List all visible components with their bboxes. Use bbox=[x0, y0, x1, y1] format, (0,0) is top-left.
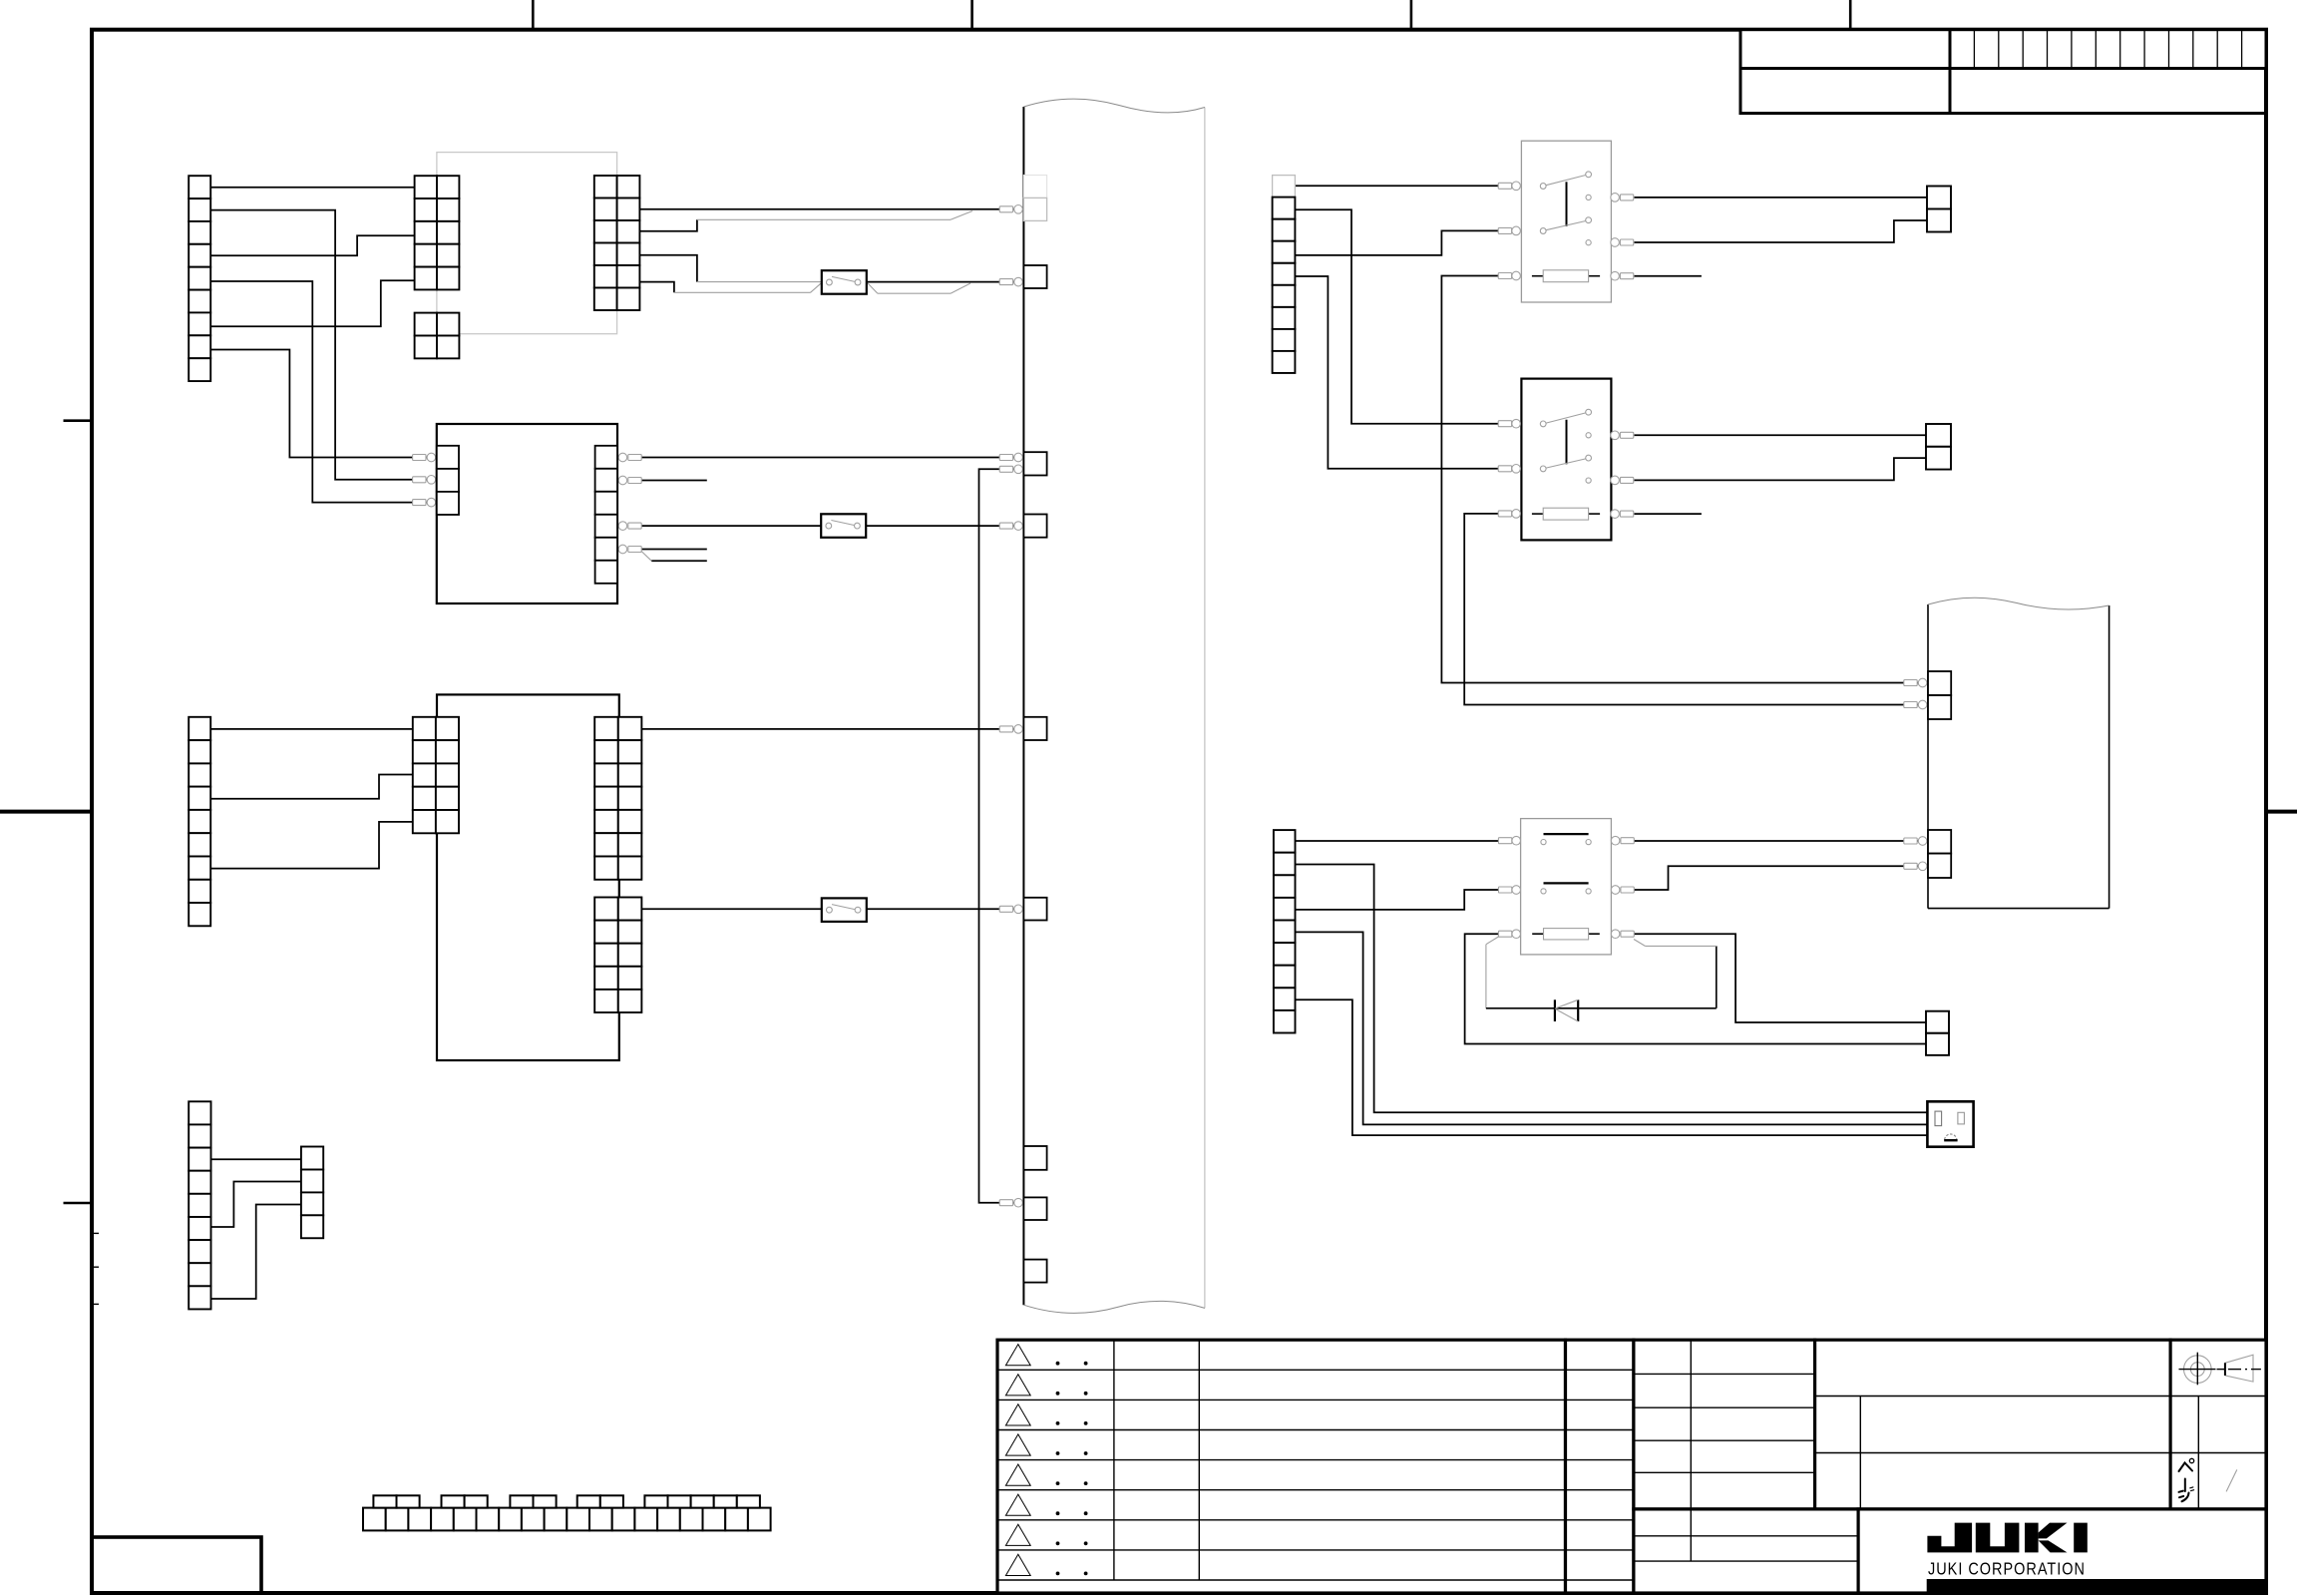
frame tick top 3 bbox=[1410, 0, 1413, 30]
frame inner marks left bbox=[92, 1232, 99, 1234]
switch S1 bbox=[822, 270, 867, 294]
bottom terminal strip upper tabs bbox=[373, 1495, 759, 1507]
connector CN-L bbox=[189, 1101, 210, 1309]
revision triangle row 8 bbox=[1005, 1554, 1030, 1575]
frame tick right center bbox=[2266, 810, 2297, 814]
wire R1 to relay2 pin1 bbox=[1295, 209, 1498, 424]
revision triangle row 1 bbox=[1005, 1345, 1030, 1366]
terminal at F pin2 bbox=[413, 476, 436, 485]
terminal at duct tab1 bbox=[999, 205, 1022, 214]
pair wire gray to tab1 bbox=[697, 218, 951, 220]
wire A2 to F pin2 bbox=[210, 210, 437, 480]
wire L9 to M3 bbox=[211, 1205, 301, 1300]
connector CN-M bbox=[301, 1147, 323, 1239]
revision dots row 2 bbox=[1056, 1392, 1088, 1396]
connector CN-C bbox=[594, 176, 640, 310]
revision dots row 8 bbox=[1056, 1572, 1088, 1576]
connector CN-B2 bbox=[415, 313, 460, 359]
terminal at F pin3 bbox=[413, 498, 436, 507]
wire F c2 stub bbox=[639, 480, 707, 482]
right unit tab2 bbox=[1928, 695, 1951, 719]
page slash bbox=[2226, 1469, 2237, 1491]
switch S2 bbox=[821, 514, 866, 538]
title sign area left bbox=[1634, 1509, 1858, 1593]
wire relay2 coil right stub bbox=[1635, 513, 1702, 515]
wire K1 to switch S3 bbox=[641, 908, 822, 910]
connector CN-B bbox=[415, 176, 460, 289]
terminal at duct tab3 b bbox=[999, 465, 1022, 474]
page label (vertical katakana) bbox=[2179, 1458, 2194, 1501]
connector CN-R bbox=[1273, 198, 1296, 373]
revision dots row 6 bbox=[1056, 1511, 1088, 1515]
revision triangle row 5 bbox=[1005, 1464, 1030, 1485]
wire L3 to M1 bbox=[211, 1158, 301, 1160]
revision dots row 5 bbox=[1056, 1481, 1088, 1485]
duct ghost tab bbox=[1023, 176, 1046, 199]
right unit tab1 bbox=[1928, 671, 1951, 695]
diode D1 bbox=[1555, 999, 1578, 1021]
wire H7 to I5 bbox=[210, 822, 413, 869]
wire N5 to outlet N bbox=[1296, 932, 1928, 1124]
terminal at F pin1 bbox=[413, 453, 436, 462]
unit box E (ghost) bbox=[437, 153, 617, 334]
frame tick left short 2 bbox=[64, 1202, 93, 1205]
F right tabs bbox=[595, 446, 617, 584]
cable duct left edge bbox=[1022, 107, 1024, 1305]
title right-middle section bbox=[1815, 1340, 2171, 1509]
terminal F out c1 bbox=[618, 453, 641, 462]
wire R3 to relay1 pin2 bbox=[1295, 230, 1498, 255]
relay RY3 bbox=[1498, 819, 1634, 955]
wire F c4 to switch S2 bbox=[639, 525, 822, 527]
wire A4 to B3 bbox=[210, 235, 414, 255]
header box right row2 bbox=[1950, 69, 2266, 114]
wire S1 to duct tab2 bbox=[867, 281, 1024, 283]
black bottom bar bbox=[1927, 1579, 2266, 1593]
right unit box right edge bbox=[2108, 605, 2110, 909]
wire duct riser tab3-tab7 bbox=[979, 469, 1024, 1202]
duct tab7 bbox=[1023, 1197, 1046, 1220]
bottom terminal strip lower row bbox=[363, 1508, 771, 1531]
revision triangle row 4 bbox=[1005, 1434, 1030, 1455]
right unit tab4 bbox=[1928, 854, 1951, 878]
terminal at right unit tab3 bbox=[1904, 837, 1927, 846]
right unit box top wave bbox=[1928, 598, 2109, 609]
terminal at duct tab5 bbox=[999, 725, 1022, 734]
terminal at duct tab4 bbox=[999, 522, 1022, 531]
cable duct bottom wave bbox=[1023, 1301, 1205, 1313]
terminal F out c4 bbox=[618, 522, 641, 531]
wire F c1 to duct tab3 bbox=[639, 457, 1024, 459]
unit box F bbox=[437, 424, 617, 603]
duct tab3 bbox=[1023, 452, 1046, 475]
wire pair stub2 bbox=[651, 560, 707, 562]
wire A5 to F pin3 bbox=[210, 281, 437, 503]
revision table bbox=[997, 1340, 1566, 1593]
diode loop wire bbox=[1486, 937, 1499, 945]
wire A7 to B5 bbox=[210, 280, 414, 326]
terminal at duct tab7 bbox=[999, 1198, 1022, 1207]
terminal F out c2 bbox=[618, 476, 641, 485]
connector CN-A bbox=[189, 176, 210, 381]
revision triangle row 6 bbox=[1005, 1494, 1030, 1515]
right unit tab3 bbox=[1928, 830, 1951, 854]
duct tab1 (gray) bbox=[1023, 198, 1046, 220]
frame tick top 1 bbox=[532, 0, 535, 30]
wire A1 to B1 bbox=[210, 187, 414, 189]
wire N8 to outlet G bbox=[1296, 999, 1928, 1135]
connector CN-J bbox=[594, 717, 641, 880]
terminal F out c5 bbox=[618, 545, 641, 554]
connector CN-N bbox=[1274, 830, 1296, 1032]
title middle section bbox=[1634, 1340, 1815, 1509]
wire C5 pair branch bbox=[639, 282, 674, 293]
wire C2 to duct tab1 bbox=[639, 208, 1023, 210]
duct tab7a bbox=[1023, 1146, 1046, 1170]
wire J1 to duct tab5 bbox=[641, 728, 1023, 730]
cable duct top wave bbox=[1023, 99, 1205, 113]
wire relay3 out1 to right unit tab3 bbox=[1633, 840, 1928, 842]
wire S3 to duct tab6 bbox=[867, 908, 1024, 910]
header box left row1 bbox=[1740, 30, 1950, 69]
revision triangle row 2 bbox=[1005, 1375, 1030, 1396]
connector CN-R gray cell bbox=[1273, 176, 1296, 198]
wire H1 to I1 bbox=[210, 728, 413, 730]
cable duct right edge bbox=[1204, 108, 1206, 1309]
terminal at right unit tab4 bbox=[1904, 862, 1927, 871]
wire N4 to relay3 pin2 bbox=[1296, 890, 1499, 910]
title far-right column bbox=[2170, 1340, 2266, 1509]
switch S3 bbox=[822, 898, 867, 922]
terminal at duct tab2 bbox=[999, 277, 1022, 286]
duct tab6 bbox=[1023, 898, 1046, 921]
frame tick top 4 bbox=[1849, 0, 1852, 30]
duct tab4 bbox=[1023, 515, 1046, 538]
wire N1 to relay3 pin1 bbox=[1296, 840, 1499, 842]
connector CN-R2c bbox=[1926, 424, 1951, 470]
svg-text:JUKI CORPORATION: JUKI CORPORATION bbox=[1928, 1559, 2086, 1579]
outlet receptacle bbox=[1927, 1101, 1973, 1146]
connector CN-R1c bbox=[1927, 187, 1951, 232]
unit box G bbox=[437, 694, 619, 1060]
relay RY2 bbox=[1498, 379, 1634, 541]
terminal at duct tab3 a bbox=[999, 453, 1022, 462]
wire relay2 coil to right unit tab2 bbox=[1464, 514, 1928, 705]
wire relay3 coil left to connector bbox=[1465, 934, 1926, 1043]
duct tab5 bbox=[1023, 717, 1046, 740]
wire C4 to switch S1 bbox=[639, 255, 697, 282]
pair wire gray stub bbox=[640, 551, 651, 562]
JUKI logo area box bbox=[1858, 1509, 2266, 1593]
wire relay2 out2 to connector bbox=[1635, 458, 1927, 480]
connector CN-R3c bbox=[1926, 1011, 1949, 1055]
title narrow column section bbox=[1566, 1340, 1634, 1593]
pair wire gray after S1 bbox=[867, 282, 878, 294]
relay RY1 bbox=[1498, 141, 1634, 302]
projection symbol target circle bbox=[2179, 1353, 2216, 1386]
duct tab8 bbox=[1023, 1260, 1046, 1283]
wire R4 to relay2 pin2 bbox=[1295, 276, 1498, 469]
frame tick top 2 bbox=[970, 0, 973, 30]
wire H4 to I3 bbox=[210, 775, 413, 799]
terminal at right unit tab2 bbox=[1904, 700, 1927, 709]
right unit box bottom edge bbox=[1928, 908, 2109, 910]
bottom-left title box bbox=[92, 1537, 261, 1593]
wire relay1 out1 to connector bbox=[1635, 197, 1928, 199]
terminal at duct tab6 bbox=[999, 905, 1022, 914]
right unit box left edge bbox=[1927, 604, 1929, 909]
connector CN-H bbox=[189, 717, 210, 926]
terminal at right unit tab1 bbox=[1904, 678, 1927, 687]
wire relay2 out1 to connector bbox=[1635, 434, 1927, 436]
revision triangle row 7 bbox=[1005, 1524, 1030, 1545]
F left tabs bbox=[437, 446, 459, 515]
wire A8 to F pin1 bbox=[210, 350, 437, 458]
revision dots row 4 bbox=[1056, 1451, 1088, 1455]
header box left row2 bbox=[1740, 69, 1950, 114]
wire relay1 coil to right unit tab1 bbox=[1441, 276, 1928, 683]
revision dots row 3 bbox=[1056, 1421, 1088, 1425]
wire L6 to M2 bbox=[211, 1182, 301, 1228]
wire C3 pair branch bbox=[639, 219, 697, 231]
wire Rtop to relay1 pin1 bbox=[1295, 185, 1498, 187]
JUKI logo bbox=[1927, 1523, 2087, 1553]
pair wire gray2 to S1 bbox=[674, 291, 811, 293]
revision triangle row 3 bbox=[1005, 1404, 1030, 1425]
wire S2 to duct tab4 bbox=[866, 525, 1023, 527]
header box right row1 cells bbox=[1950, 30, 2266, 69]
connector CN-I bbox=[413, 717, 459, 834]
connector CN-K bbox=[594, 898, 641, 1013]
duct tab2 bbox=[1023, 265, 1046, 288]
revision dots row 7 bbox=[1056, 1541, 1088, 1545]
wire F c5 stub bbox=[639, 549, 707, 551]
wire N2 to outlet L bbox=[1296, 865, 1928, 1113]
wire relay3 out2 to right unit tab4 bbox=[1633, 866, 1928, 890]
wire relay3 coil right to connector bbox=[1633, 934, 1926, 1022]
wire relay1 coil right stub bbox=[1635, 275, 1702, 277]
wire relay1 out2 to connector bbox=[1635, 220, 1928, 242]
revision dots row 1 bbox=[1056, 1362, 1088, 1366]
pair wire gray to S1 bbox=[697, 281, 822, 283]
frame tick left center bbox=[0, 810, 92, 814]
projection symbol cone bbox=[2217, 1355, 2261, 1382]
frame tick left short 1 bbox=[64, 419, 93, 422]
